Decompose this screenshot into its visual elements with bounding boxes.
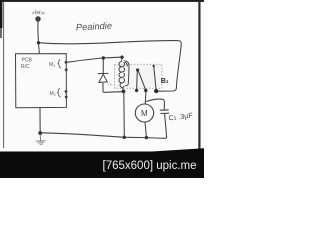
connector M1 xyxy=(49,60,68,72)
junction diode top xyxy=(102,56,105,59)
relay K1 dashed enclosure xyxy=(115,64,163,88)
wire ground rail xyxy=(41,133,167,139)
capacitor C1 xyxy=(146,99,169,137)
wire right drop xyxy=(158,41,182,92)
junction motor ground xyxy=(145,136,148,139)
wire top rail xyxy=(40,41,179,44)
wire PCB supply xyxy=(38,44,41,54)
wire diode bottom xyxy=(103,91,122,94)
PCB U1 xyxy=(16,54,67,108)
svg-text:D1: D1 xyxy=(108,82,113,87)
svg-text:Peaindie: Peaindie xyxy=(76,21,113,33)
wire motor to ground rail xyxy=(145,122,146,137)
svg-text:PCB: PCB xyxy=(22,58,33,64)
wire M1 to coil xyxy=(68,57,122,62)
wire coil bottom to ground rail xyxy=(123,93,126,137)
relay coil xyxy=(119,58,129,90)
svg-text:[765x600] upic.me: [765x600] upic.me xyxy=(103,160,197,172)
junction coil bottom xyxy=(122,90,126,94)
node +5Vcc xyxy=(31,9,45,22)
relay armature xyxy=(135,68,148,92)
relay contact common xyxy=(153,65,159,93)
junction +5V xyxy=(37,41,40,44)
connector M2 xyxy=(50,89,68,99)
junction coil top xyxy=(120,56,123,59)
junction ground xyxy=(38,131,42,135)
svg-text:R/C: R/C xyxy=(21,64,30,70)
wire +5V drop xyxy=(37,21,40,41)
ground xyxy=(36,135,46,145)
junction coil rail xyxy=(123,136,126,139)
diode D1 xyxy=(98,60,109,92)
motor M xyxy=(135,104,153,122)
wire PCB to ground xyxy=(39,108,41,132)
svg-text:M: M xyxy=(141,109,148,118)
svg-text:B1: B1 xyxy=(161,78,169,85)
wire relay to motor xyxy=(144,92,147,104)
